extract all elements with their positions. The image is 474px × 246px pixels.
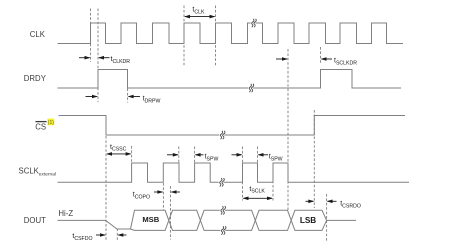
- dashed marker CS rising edge: [313, 110, 315, 208]
- dashed marker DRDY rising edge 2: [320, 47, 322, 64]
- break symbol on SCLK low: [219, 178, 225, 186]
- svg-text:DRDY: DRDY: [24, 74, 47, 83]
- svg-text:DOUT: DOUT: [24, 216, 46, 225]
- dashed marker SCLK rising edge 2 extension: [162, 183, 164, 210]
- dashed marker CS falling edge: [105, 136, 107, 241]
- break symbol on CS low: [219, 131, 225, 139]
- svg-text:MSB: MSB: [142, 215, 159, 224]
- dashed marker DRDY rising edge 1: [97, 9, 99, 103]
- dimension tCSSC: [106, 144, 132, 156]
- wire DRDY waveform: [58, 70, 402, 89]
- dashed marker SCLK rising edge 4: [242, 147, 244, 201]
- dimension tSPW high pulse: [232, 153, 283, 162]
- dimension tCLKDR: [79, 56, 130, 65]
- break symbol on CLK high: [251, 19, 257, 27]
- dashed marker SCLK falling edge 4: [257, 147, 259, 163]
- svg-text:CS: CS: [35, 122, 46, 131]
- dashed marker CLK rising edge 1: [90, 9, 92, 63]
- dashed marker SCLK rising edge 3: [194, 147, 196, 163]
- break symbol on DOUT top edge: [220, 206, 226, 214]
- blue tick at CS start: [59, 115, 62, 117]
- note (1) highlighted: [47, 119, 54, 126]
- dashed marker DOUT driven: [116, 229, 118, 242]
- wire DOUT bus bottom edges: [131, 210, 327, 230]
- svg-text:LSB: LSB: [300, 216, 316, 225]
- dashed marker last SCLK falling edge: [287, 49, 289, 211]
- wire DOUT Hi-Z and driven-low segment: [58, 220, 131, 229]
- overline on CS: [35, 121, 46, 123]
- svg-text:Hi-Z: Hi-Z: [58, 209, 73, 218]
- dashed marker SCLK rising edge 5: [272, 163, 274, 201]
- svg-text:(1): (1): [48, 120, 54, 126]
- break symbol on DOUT bottom edge: [220, 226, 226, 234]
- wire CS waveform: [59, 116, 406, 136]
- dimension tCLK: [184, 7, 216, 19]
- dimension tCOPO: [133, 190, 180, 200]
- dashed marker SCLK rising edge 1: [131, 146, 133, 163]
- dashed marker DRDY falling edge 1: [127, 89, 129, 103]
- dashed marker DOUT data valid: [170, 186, 172, 240]
- dashed marker DOUT Hi-Z end: [326, 194, 328, 241]
- dimension tCSFDO: [72, 233, 126, 242]
- dimension tDRPW: [86, 95, 161, 105]
- wire CLK waveform: [58, 23, 404, 44]
- dashed marker SCLK falling edge 2: [178, 147, 180, 163]
- dashed marker tCLK left: [183, 6, 185, 68]
- svg-text:CLK: CLK: [30, 30, 46, 39]
- dimension tCSRDO: [306, 200, 361, 210]
- wire SCLK waveform: [58, 163, 410, 182]
- dimension tSCLKDR: [276, 57, 357, 66]
- dimension tSPW low pulse: [167, 153, 218, 162]
- dashed marker tCLK right: [215, 6, 217, 68]
- break symbol on DRDY low: [248, 84, 254, 92]
- wire DOUT bus MSB segment: [131, 210, 357, 230]
- dimension tSCLK: [243, 186, 274, 200]
